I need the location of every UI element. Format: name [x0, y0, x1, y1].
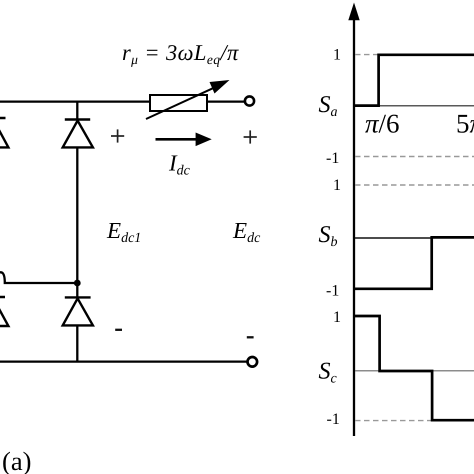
Sa dashed level -1 — [355, 156, 474, 158]
junction dot — [74, 280, 81, 287]
wire D2 to bottom — [76, 325, 78, 362]
wire top-left segment — [0, 100, 150, 102]
Sc dashed level -1 — [355, 420, 432, 422]
svg-text:1: 1 — [333, 47, 341, 64]
Sb thin zero reference — [355, 237, 432, 239]
partial diode PD2 (left edge, bottom) — [0, 297, 8, 326]
Sa dashed level 1 — [355, 54, 378, 56]
diode D2 triangle — [63, 298, 93, 325]
wire D1 to junction — [76, 147, 78, 284]
diode D2 stub — [76, 283, 78, 297]
diode D1 triangle — [63, 121, 93, 148]
svg-text:-1: -1 — [326, 283, 339, 300]
axis vertical line — [353, 16, 355, 436]
svg-text:rμ = 3ωLeq/π: rμ = 3ωLeq/π — [122, 40, 239, 67]
Sb waveform — [354, 237, 474, 288]
svg-text:π/6: π/6 — [365, 109, 400, 139]
plus sign right — [244, 130, 257, 143]
axis arrowhead — [348, 3, 359, 21]
svg-text:(a): (a) — [2, 446, 31, 474]
svg-text:5π/6: 5π/6 — [456, 109, 474, 139]
Sc waveform — [354, 316, 474, 420]
wire top-right segment — [207, 100, 245, 102]
diode D1 cathode bar — [65, 118, 90, 120]
Sa thin zero reference — [378, 105, 474, 107]
svg-text:-1: -1 — [326, 150, 339, 167]
minus sign left — [115, 329, 122, 331]
plus sign left — [111, 129, 124, 142]
wire middle with hook — [0, 272, 77, 283]
Sa waveform — [354, 55, 474, 106]
svg-text:1: 1 — [333, 177, 341, 194]
resistor r_mu box — [150, 95, 207, 111]
Sb dashed level 1 — [355, 184, 474, 186]
svg-text:1: 1 — [333, 309, 341, 326]
partial diode PD1 (left edge, top) — [0, 118, 8, 147]
variable-resistor arrow — [146, 80, 230, 119]
terminal circle bottom-right — [248, 357, 258, 367]
Sc thin zero reference — [355, 370, 474, 372]
diode D1 stub — [76, 101, 78, 120]
minus sign right — [247, 336, 254, 338]
diode D2 cathode bar — [65, 296, 91, 298]
terminal circle top-right — [245, 96, 254, 105]
wire bottom — [0, 360, 247, 362]
arrow I_dc — [156, 133, 212, 147]
svg-text:-1: -1 — [327, 411, 340, 428]
